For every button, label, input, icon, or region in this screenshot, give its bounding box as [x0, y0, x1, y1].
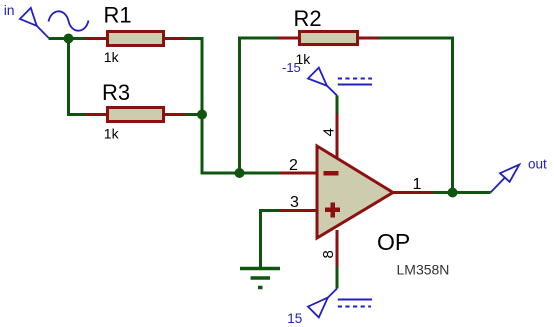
svg-text:4: 4	[321, 128, 338, 136]
wire	[379, 38, 453, 193]
svg-text:2: 2	[289, 157, 298, 174]
svg-text:8: 8	[320, 250, 337, 258]
node A junction in/R1/R3	[64, 34, 74, 44]
node D junction output	[448, 188, 458, 198]
op-amp U1 body	[317, 146, 449, 278]
wire	[69, 39, 87, 115]
power -15 symbol	[308, 68, 372, 96]
wire	[185, 113, 202, 116]
svg-text:out: out	[528, 156, 547, 171]
node B junction R3/vertical	[197, 110, 207, 120]
wire	[261, 211, 281, 268]
svg-text:1k: 1k	[104, 126, 120, 142]
power 15 symbol	[308, 289, 372, 318]
wire	[336, 96, 339, 114]
port in	[20, 8, 89, 38]
svg-text:OP: OP	[377, 229, 410, 255]
svg-text:-15: -15	[282, 60, 301, 75]
svg-text:15: 15	[287, 311, 302, 326]
node C junction R2/pin2	[235, 168, 245, 178]
svg-text:LM358N: LM358N	[397, 262, 450, 278]
resistor R3	[86, 80, 185, 142]
svg-text:R2: R2	[294, 6, 322, 31]
svg-text:in: in	[4, 2, 15, 18]
svg-text:3: 3	[290, 194, 299, 211]
ground	[240, 269, 280, 288]
port out	[491, 165, 520, 193]
svg-text:R1: R1	[104, 3, 132, 28]
resistor R1	[86, 3, 185, 66]
svg-text:R3: R3	[102, 80, 130, 105]
resistor R2	[278, 6, 379, 67]
svg-text:1: 1	[413, 176, 422, 193]
wire	[433, 191, 491, 194]
svg-text:1k: 1k	[104, 49, 120, 65]
op-amp U1 pins	[280, 114, 433, 267]
wire	[336, 266, 339, 289]
wire	[49, 37, 87, 40]
wire	[240, 38, 279, 173]
wire	[185, 39, 280, 174]
